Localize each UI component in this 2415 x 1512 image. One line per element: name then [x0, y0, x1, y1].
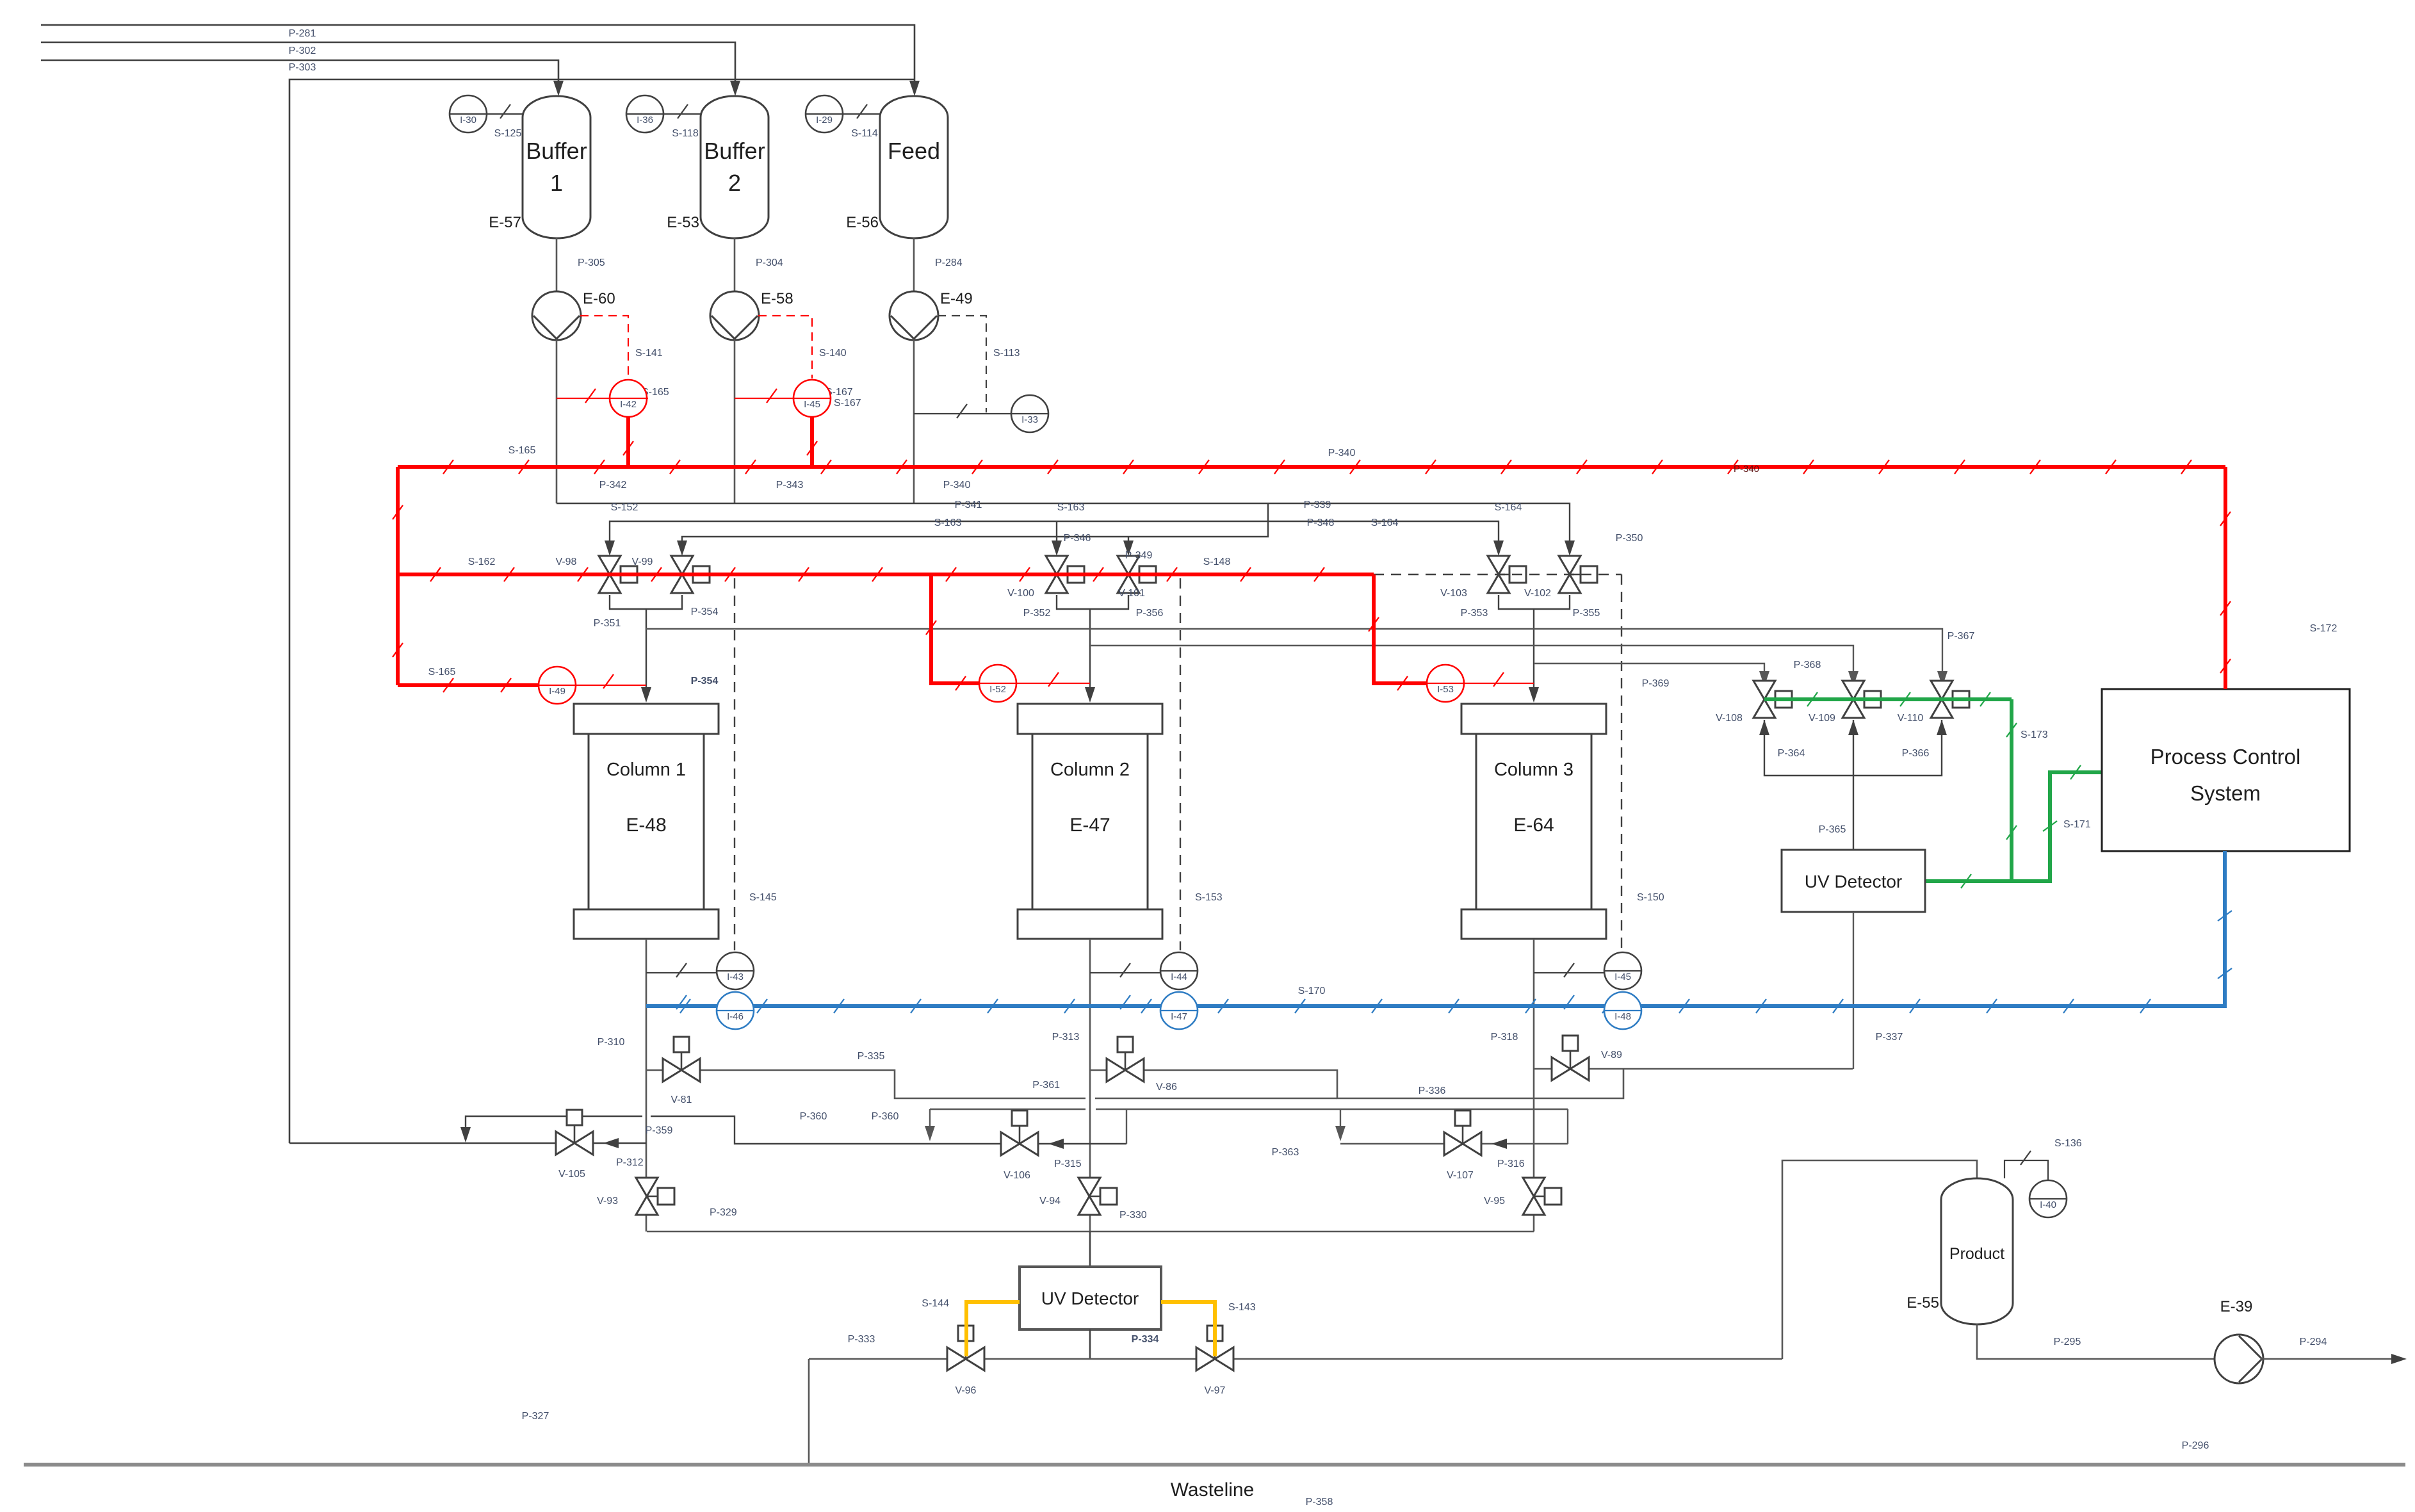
arrow into V-102	[1565, 541, 1575, 556]
instrument I-45 pump	[793, 398, 831, 399]
wire P-335 cont	[1095, 1098, 1337, 1100]
pump E-58	[710, 291, 759, 340]
tick blue 12	[1602, 999, 1613, 1013]
valve V-103	[1488, 556, 1509, 593]
tick S-136	[2021, 1151, 2031, 1165]
svg-text:Buffer: Buffer	[704, 138, 765, 164]
arrow into V-110	[1937, 671, 1947, 687]
arrow into V-99	[677, 541, 687, 556]
tank Buffer 1 E-57	[523, 96, 590, 238]
valve V-109	[1853, 699, 1864, 701]
svg-text:S-165: S-165	[428, 667, 456, 678]
svg-text:S-140: S-140	[819, 348, 847, 359]
tick blue 11	[1525, 999, 1536, 1013]
svg-text:V-96: V-96	[955, 1385, 977, 1396]
tank Buffer 2 E-53	[701, 96, 768, 238]
tick red bus2 4	[725, 567, 735, 581]
svg-text:P-342: P-342	[599, 480, 627, 491]
valve V-105	[574, 1125, 576, 1143]
tick green a	[1807, 692, 1817, 706]
red S-172	[2224, 467, 2227, 689]
wire I-36 to tank	[645, 113, 701, 115]
arrow into V-103	[1493, 541, 1504, 556]
svg-text:V-93: V-93	[597, 1196, 618, 1207]
valve V-89	[1570, 1051, 1572, 1069]
svg-text:Process Control: Process Control	[2151, 745, 2301, 768]
svg-text:V-100: V-100	[1007, 588, 1034, 599]
svg-text:P-304: P-304	[756, 257, 783, 268]
svg-text:UV Detector: UV Detector	[1805, 872, 1903, 891]
svg-text:P-358: P-358	[1306, 1497, 1333, 1508]
svg-text:Buffer: Buffer	[526, 138, 587, 164]
tick I-45p bus	[807, 441, 817, 455]
tick I-47	[1120, 995, 1130, 1009]
tick green d	[2006, 723, 2017, 737]
column E-64	[1476, 734, 1591, 909]
tick red bus2 9	[1093, 567, 1103, 581]
valve V-107	[1444, 1132, 1481, 1155]
column E-47	[1018, 704, 1162, 734]
svg-text:V-86: V-86	[1156, 1082, 1177, 1093]
valve V-95	[1534, 1196, 1545, 1198]
svg-text:P-363: P-363	[1272, 1147, 1299, 1158]
svg-text:S-148: S-148	[1203, 557, 1231, 567]
wire column2 feed	[1089, 609, 1091, 696]
svg-text:P-336: P-336	[1419, 1085, 1446, 1096]
tick blue 1	[757, 999, 767, 1013]
tick red bus2 5	[799, 567, 809, 581]
tick I-33	[957, 404, 967, 418]
wasteline	[24, 1463, 2405, 1467]
tank Product E-55	[1941, 1178, 2013, 1324]
column E-64	[1461, 909, 1606, 939]
tick red bus2 2	[578, 567, 588, 581]
instrument I-46	[717, 1010, 754, 1011]
valve V-95	[1545, 1188, 1561, 1205]
wire I-33 line	[914, 413, 1011, 414]
column E-47	[1032, 734, 1148, 909]
instrument I-53	[1427, 683, 1464, 684]
wire P-360	[930, 1109, 1086, 1110]
svg-text:V-106: V-106	[1004, 1170, 1030, 1181]
valve V-93	[636, 1178, 658, 1215]
yellow S-143	[1161, 1302, 1215, 1356]
wire product collection	[809, 1358, 1782, 1360]
instrument I-42	[610, 398, 647, 399]
svg-text:P-348: P-348	[1307, 517, 1335, 528]
svg-text:Column 2: Column 2	[1050, 760, 1130, 780]
wire column2 outlet	[1089, 939, 1091, 1232]
svg-text:P-340: P-340	[1734, 464, 1759, 475]
svg-text:P-294: P-294	[2300, 1337, 2327, 1347]
svg-text:V-94: V-94	[1039, 1196, 1061, 1207]
tick red bus top 0	[443, 460, 453, 474]
tick S-172 a	[2220, 512, 2231, 526]
svg-text:I-43: I-43	[727, 971, 744, 982]
wire L1 S-152 P-341	[557, 503, 1570, 548]
svg-text:P-368: P-368	[1794, 660, 1821, 671]
signal S-113 dashed	[938, 316, 986, 412]
tick I-46	[676, 995, 687, 1009]
valve V-100	[1057, 574, 1068, 576]
svg-text:S-153: S-153	[1195, 892, 1223, 903]
pump E-58	[711, 316, 758, 339]
arrow P-360 drop1	[925, 1126, 935, 1141]
instrument I-42	[610, 380, 647, 417]
wire I-42 to bus	[626, 417, 630, 467]
svg-text:P-351: P-351	[594, 618, 621, 629]
tick I-45	[1564, 963, 1574, 977]
valve V-98	[610, 574, 621, 576]
svg-text:P-359: P-359	[646, 1125, 673, 1136]
svg-text:S-171: S-171	[2063, 819, 2091, 830]
red bus S-162 y897	[398, 573, 1374, 576]
svg-text:P-369: P-369	[1642, 678, 1670, 689]
valve V-108	[1775, 691, 1792, 708]
svg-text:Feed: Feed	[888, 138, 940, 164]
tick I-49 b	[501, 678, 511, 692]
tick I-44	[1120, 963, 1130, 977]
tick red bus top 21	[2030, 460, 2040, 474]
wire I-45 tick line	[1534, 972, 1604, 973]
wire E-58 outlet	[734, 339, 736, 503]
arrow into V-100	[1052, 541, 1062, 556]
tick I-52 a	[926, 621, 936, 635]
svg-text:I-48: I-48	[1614, 1011, 1631, 1022]
wire P-363	[1340, 1143, 1568, 1144]
tick S-125	[500, 104, 510, 118]
red tap I-53 thin	[1464, 683, 1534, 684]
svg-text:S-172: S-172	[2310, 623, 2338, 634]
wire L3 P-346	[682, 503, 1268, 548]
wire column1 outlet	[646, 939, 647, 1232]
red tap I-52 thin	[1016, 683, 1090, 684]
valve V-102	[1570, 574, 1581, 576]
red tap I-49 thick	[398, 683, 539, 687]
svg-text:E-48: E-48	[626, 815, 666, 836]
tick red bus top 23	[2181, 460, 2191, 474]
wire I-43 tick line	[646, 972, 717, 973]
wire E-60 outlet	[556, 339, 558, 503]
svg-text:P-350: P-350	[1616, 533, 1643, 544]
valve V-110	[1953, 691, 1969, 708]
tick blue 5	[1064, 999, 1075, 1013]
wire V-98 V-99 manifold	[610, 595, 682, 609]
tick blue 19	[2140, 999, 2151, 1013]
svg-text:P-343: P-343	[776, 480, 804, 491]
valve V-109	[1864, 691, 1881, 708]
column E-64	[1461, 704, 1606, 734]
wire P-367	[646, 629, 1942, 679]
instrument I-30	[450, 113, 487, 115]
valve V-101	[1128, 574, 1139, 576]
valve V-89	[1552, 1057, 1589, 1080]
valve V-100	[1046, 556, 1068, 593]
arrow into Column 3	[1529, 687, 1539, 703]
signal S-141 dashed	[580, 316, 628, 378]
svg-text:P-356: P-356	[1136, 608, 1164, 619]
instrument I-30	[450, 95, 487, 133]
svg-text:P-367: P-367	[1947, 631, 1975, 642]
svg-text:E-56: E-56	[846, 214, 879, 231]
svg-text:S-162: S-162	[468, 557, 496, 567]
arrow into Column 2	[1085, 687, 1095, 703]
arrow into Buffer 2 tank	[730, 81, 740, 96]
svg-text:V-107: V-107	[1447, 1170, 1474, 1181]
wire UV1 outlet	[1089, 1329, 1091, 1359]
wire P-302	[41, 42, 735, 87]
svg-text:P-360: P-360	[800, 1111, 827, 1122]
svg-text:P-284: P-284	[935, 257, 963, 268]
tick S-172 b	[2220, 601, 2231, 615]
valve V-96	[947, 1347, 984, 1370]
valve V-96	[965, 1341, 967, 1359]
svg-text:V-105: V-105	[558, 1169, 585, 1180]
instrument I-33	[1011, 395, 1048, 432]
svg-text:V-102: V-102	[1524, 588, 1551, 599]
column E-48	[589, 734, 704, 909]
tick red bus top 15	[1577, 460, 1587, 474]
tick blue 18	[2063, 999, 2074, 1013]
arrow into Column 1	[641, 687, 651, 703]
svg-text:V-81: V-81	[671, 1094, 692, 1105]
tick I-53 c	[1493, 672, 1504, 687]
tick red bus top 18	[1803, 460, 1814, 474]
svg-text:P-364: P-364	[1778, 748, 1805, 759]
tick blue 13	[1679, 999, 1689, 1013]
wire UV2 outlet	[1853, 912, 1854, 1069]
green line main	[1764, 697, 2012, 701]
wire P-303	[41, 60, 558, 87]
wire I-45p red line	[735, 398, 831, 399]
wire P-305	[556, 238, 558, 292]
valve V-95	[1523, 1178, 1545, 1215]
arrow into V-108	[1759, 671, 1769, 687]
yellow S-144	[966, 1302, 1020, 1356]
arrow into V-109 bottom	[1848, 720, 1858, 735]
tick red bus2 1	[504, 567, 514, 581]
instrument I-29	[806, 95, 843, 133]
valve V-93	[647, 1196, 658, 1198]
red tap I-53 thick	[1374, 574, 1427, 683]
wire V-105 line	[289, 1142, 646, 1144]
tick red bus top 11	[1274, 460, 1285, 474]
tick red bus top 10	[1199, 460, 1209, 474]
valve V-107	[1462, 1126, 1464, 1144]
svg-text:S-118: S-118	[672, 128, 699, 139]
wire P-336	[1090, 1069, 1623, 1098]
signal S-153 dashed	[1180, 578, 1181, 950]
tick red bus2 12	[1314, 567, 1324, 581]
instrument I-48	[1604, 992, 1641, 1029]
valve V-108	[1764, 699, 1775, 701]
wire P-295	[1977, 1324, 2217, 1359]
tick red bus top 9	[1123, 460, 1134, 474]
instrument I-33	[1011, 413, 1048, 414]
green S-173	[1925, 699, 2012, 881]
arrow into V-110 bottom	[1937, 720, 1947, 735]
tick I-43	[676, 963, 687, 977]
wire P-360 drop3	[1340, 1109, 1341, 1134]
wire I-29 to tank	[824, 113, 880, 115]
tick S-114	[857, 104, 867, 118]
instrument I-45	[1604, 970, 1641, 971]
tick red bus2 10	[1167, 567, 1177, 581]
wire P-364 P-366 manifold	[1764, 720, 1942, 776]
svg-text:E-57: E-57	[489, 214, 521, 231]
instrument I-29	[806, 113, 843, 115]
tick red bus top 16	[1652, 460, 1663, 474]
arrow P-360 drop3	[1335, 1126, 1346, 1141]
svg-text:P-341: P-341	[955, 500, 982, 510]
arrow into Buffer 1 tank	[553, 81, 564, 96]
instrument I-53	[1427, 665, 1464, 702]
tick I-53 b	[1397, 676, 1408, 690]
svg-text:I-52: I-52	[989, 684, 1006, 695]
instrument I-49	[539, 685, 576, 686]
instrument I-36	[626, 113, 663, 115]
wire waste drop	[808, 1359, 810, 1465]
svg-text:P-316: P-316	[1497, 1158, 1525, 1169]
column E-48	[574, 704, 719, 734]
valve V-98	[621, 566, 637, 583]
tick blue 8	[1295, 999, 1305, 1013]
tick blue 16	[1910, 999, 1920, 1013]
svg-text:P-353: P-353	[1461, 608, 1488, 619]
blue signal line	[646, 851, 2225, 1006]
svg-text:P-349: P-349	[1125, 550, 1153, 561]
pump E-60	[533, 316, 580, 339]
arrow into V-109	[1848, 671, 1858, 687]
arrow into V-106	[1048, 1139, 1064, 1149]
tick green c	[1980, 692, 1990, 706]
valve V-105	[556, 1132, 593, 1155]
tick red bus top 6	[897, 460, 907, 474]
svg-text:I-45: I-45	[804, 399, 820, 410]
svg-text:S-144: S-144	[922, 1298, 949, 1309]
wire P-368	[1090, 646, 1853, 679]
svg-text:P-315: P-315	[1054, 1158, 1082, 1169]
wire P-304	[734, 238, 736, 292]
valve V-94	[1100, 1188, 1117, 1205]
valve V-99	[671, 556, 693, 593]
svg-text:E-39: E-39	[2220, 1298, 2253, 1315]
svg-text:E-58: E-58	[761, 290, 793, 307]
Process Control System box	[2102, 689, 2350, 851]
valve V-86	[1125, 1052, 1126, 1070]
svg-text:I-42: I-42	[620, 399, 637, 410]
svg-text:V-103: V-103	[1440, 588, 1467, 599]
tick green g	[2043, 821, 2057, 831]
svg-text:P-296: P-296	[2182, 1440, 2209, 1451]
svg-text:V-89: V-89	[1601, 1050, 1622, 1061]
tick blue 4	[988, 999, 998, 1013]
tick blue 9	[1372, 999, 1382, 1013]
tick blue v2	[2218, 968, 2232, 979]
valve V-109	[1842, 681, 1864, 718]
tick red bus top 14	[1501, 460, 1511, 474]
valve V-97	[1196, 1347, 1233, 1370]
tick red bus2 3	[651, 567, 662, 581]
instrument I-44	[1160, 970, 1198, 971]
tick red bus2 8	[1020, 567, 1030, 581]
svg-text:P-327: P-327	[522, 1411, 549, 1422]
svg-text:Product: Product	[1949, 1245, 2004, 1263]
pump E-39	[2215, 1335, 2263, 1383]
tick blue 6	[1141, 999, 1151, 1013]
valve V-86	[1118, 1037, 1133, 1052]
tick red bus top 1	[519, 460, 529, 474]
tick red bus top 5	[821, 460, 831, 474]
tick red bus top 2	[594, 460, 605, 474]
svg-text:P-355: P-355	[1573, 608, 1600, 619]
valve V-89	[1563, 1036, 1578, 1051]
wire column1 feed	[646, 609, 647, 696]
svg-text:I-53: I-53	[1437, 684, 1454, 695]
tank Feed E-56	[880, 96, 948, 238]
svg-text:P-352: P-352	[1023, 608, 1051, 619]
column E-48	[574, 909, 719, 939]
valve V-81	[663, 1059, 700, 1082]
svg-text:E-49: E-49	[940, 290, 973, 307]
valve V-97	[1214, 1341, 1216, 1359]
tick red left v1	[393, 505, 403, 519]
tick blue 0	[680, 999, 690, 1013]
tick I-45p	[767, 389, 777, 403]
tick S-118	[678, 104, 688, 118]
tick red bus top 19	[1879, 460, 1889, 474]
svg-text:S-125: S-125	[494, 128, 522, 139]
valve V-93	[658, 1188, 674, 1205]
instrument I-48	[1604, 1010, 1641, 1011]
wire S-136	[2004, 1160, 2048, 1180]
svg-text:I-45: I-45	[1614, 971, 1631, 982]
svg-text:I-30: I-30	[460, 115, 476, 126]
valve V-96	[958, 1326, 973, 1341]
valve V-106	[1019, 1126, 1021, 1144]
valve V-110	[1931, 681, 1953, 718]
wire P-284	[913, 238, 915, 292]
arrow into V-101	[1123, 541, 1134, 556]
tick red bus top 22	[2106, 460, 2116, 474]
wire I-45p to bus	[810, 417, 814, 467]
wire P-359 b	[651, 1116, 1126, 1144]
svg-text:P-354: P-354	[691, 676, 719, 687]
svg-text:P-281: P-281	[289, 28, 316, 39]
tick blue v1	[2218, 911, 2232, 921]
tick red bus top 12	[1350, 460, 1360, 474]
wire V-109 riser	[1853, 720, 1854, 776]
instrument I-40	[2029, 1180, 2067, 1217]
svg-text:E-60: E-60	[583, 290, 615, 307]
wire V-103 V-102 manifold	[1499, 595, 1570, 609]
instrument I-47	[1160, 992, 1198, 1029]
valve V-100	[1068, 566, 1084, 583]
instrument I-45 pump	[793, 380, 831, 417]
svg-text:S-143: S-143	[1228, 1302, 1256, 1313]
valve V-81	[681, 1052, 683, 1070]
svg-text:S-164: S-164	[1371, 517, 1399, 528]
tick red bus2 0	[430, 567, 441, 581]
pump E-60	[532, 291, 581, 340]
svg-text:V-108: V-108	[1716, 713, 1743, 724]
svg-text:P-361: P-361	[1032, 1080, 1060, 1091]
svg-text:P-303: P-303	[289, 62, 316, 73]
wire L2 drop V-100	[1056, 521, 1057, 548]
svg-text:I-33: I-33	[1021, 414, 1038, 425]
wire I-44 tick line	[1090, 972, 1160, 973]
signal S-140 dashed	[758, 316, 812, 378]
